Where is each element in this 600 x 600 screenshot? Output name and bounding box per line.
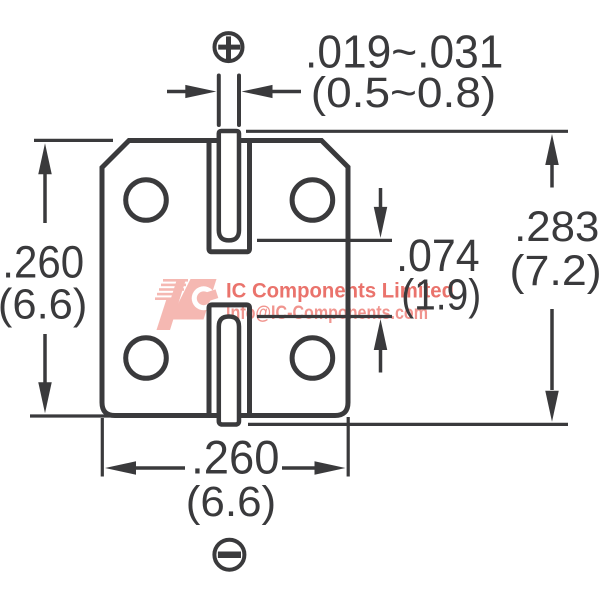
minus polarity symbol [214, 540, 244, 570]
top slot [209, 141, 250, 252]
bottom width extension lines [102, 417, 348, 477]
bottom terminal tab [219, 317, 239, 425]
svg-text:(0.5~0.8): (0.5~0.8) [311, 69, 497, 117]
svg-text:(6.6): (6.6) [186, 478, 276, 526]
terminal width dimension arrows [167, 85, 301, 98]
pad circle top-right [292, 180, 333, 221]
svg-text:.260: .260 [191, 432, 279, 485]
top terminal tab [219, 131, 239, 240]
slash 1 [157, 299, 174, 330]
watermark logo IC Components [155, 279, 218, 330]
pad circle top-left [126, 180, 167, 221]
plus polarity symbol [215, 33, 243, 61]
svg-text:(6.6): (6.6) [0, 280, 87, 328]
pad circle bottom-left [126, 338, 167, 379]
main quad with C [170, 279, 217, 320]
svg-text:.283: .283 [514, 204, 599, 251]
gap dimension arrows [374, 188, 388, 373]
svg-text:(7.2): (7.2) [510, 248, 600, 295]
right overall height dimension line [545, 134, 559, 422]
left height extension lines [30, 140, 115, 416]
right overall height extension lines [246, 131, 568, 424]
hatch stripes [155, 279, 188, 300]
left height dimension line [38, 143, 52, 413]
svg-text:Info@IC-Components.com: Info@IC-Components.com [226, 302, 428, 324]
bottom width dimension line [105, 461, 346, 475]
bottom slot [209, 305, 250, 416]
slash 2 [161, 279, 186, 330]
pad circle bottom-right [292, 338, 333, 379]
svg-text:(1.9): (1.9) [401, 271, 481, 320]
capacitor body outline [102, 141, 348, 416]
gap extension lines [257, 240, 392, 316]
terminal width extension lines [219, 76, 239, 126]
